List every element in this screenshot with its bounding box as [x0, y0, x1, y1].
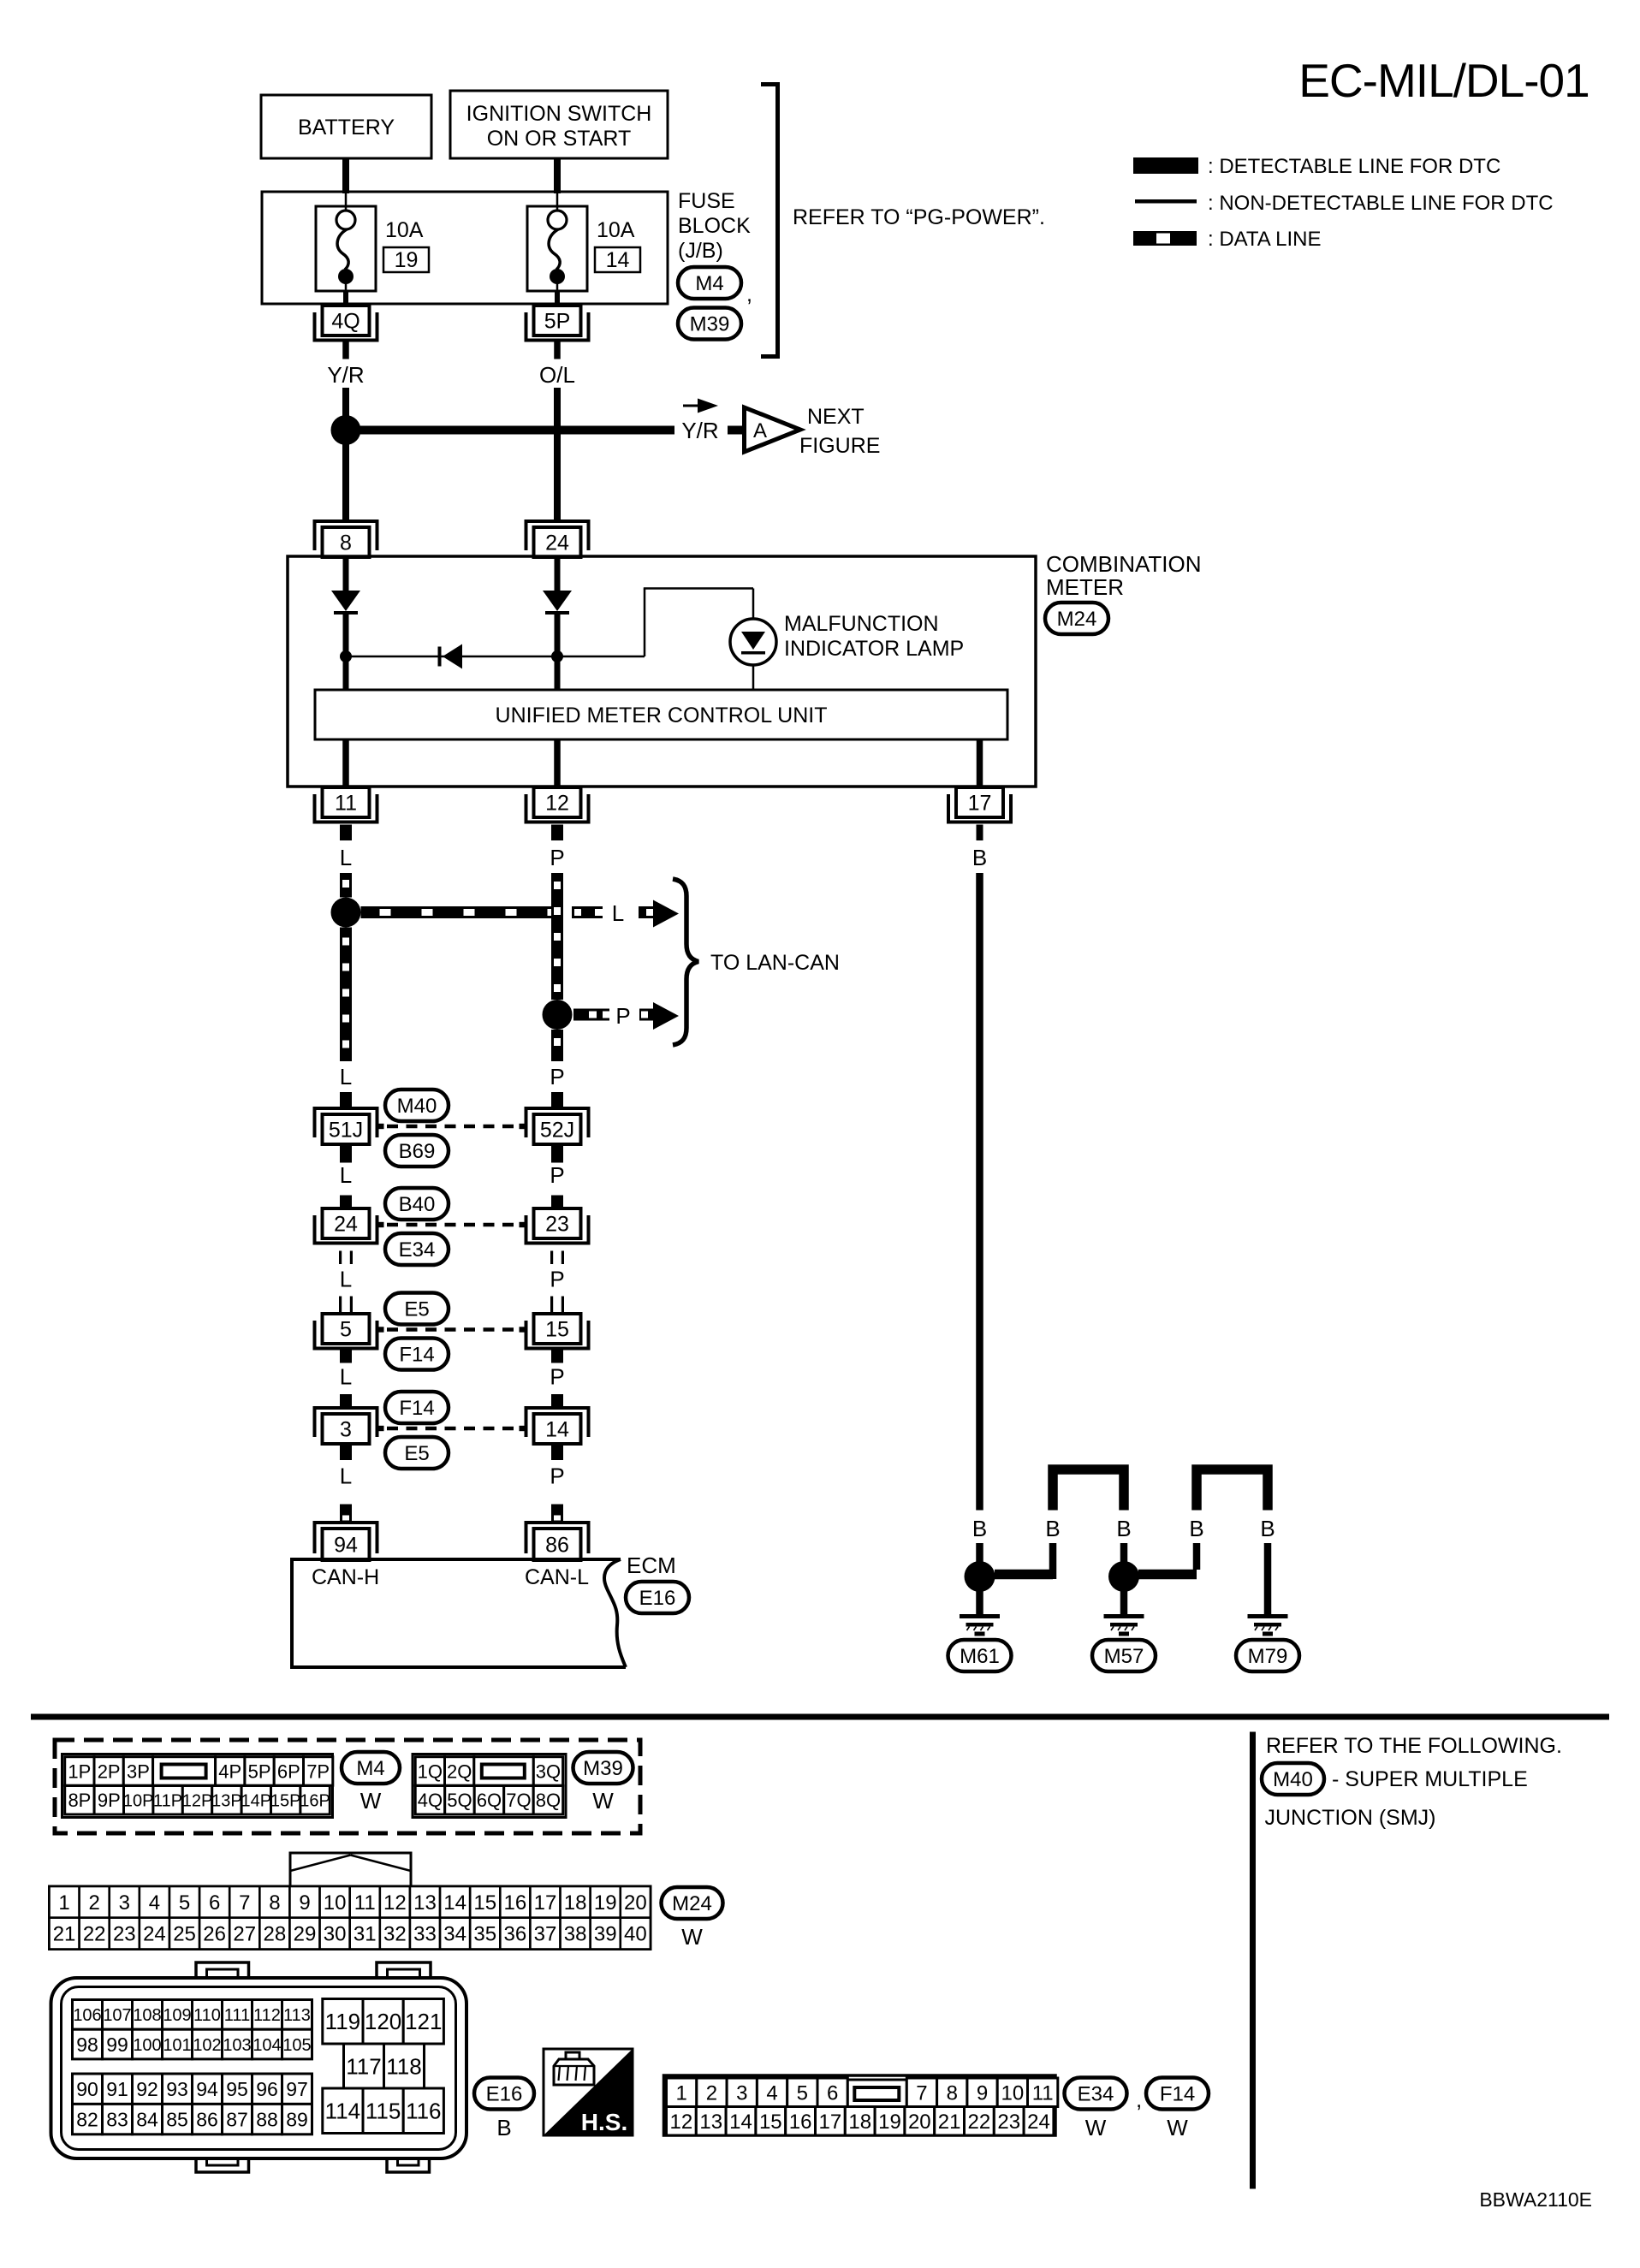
- svg-text:84: 84: [136, 2108, 158, 2130]
- svg-text:6Q: 6Q: [477, 1790, 502, 1811]
- svg-text:B: B: [1189, 1516, 1203, 1541]
- svg-text:Y/R: Y/R: [681, 418, 718, 443]
- svg-text:15: 15: [473, 1891, 496, 1915]
- svg-text:11: 11: [335, 792, 357, 816]
- svg-text:L: L: [340, 1162, 352, 1188]
- svg-text:10A: 10A: [597, 218, 635, 242]
- svg-text:FIGURE: FIGURE: [799, 434, 880, 458]
- svg-text:: NON-DETECTABLE LINE FOR DTC: : NON-DETECTABLE LINE FOR DTC: [1208, 192, 1554, 215]
- svg-text:2: 2: [89, 1891, 100, 1915]
- svg-text:W: W: [1167, 2115, 1188, 2140]
- svg-text:114: 114: [325, 2099, 360, 2124]
- svg-text:P: P: [550, 1162, 564, 1188]
- svg-text:B: B: [972, 1516, 987, 1541]
- svg-text:8Q: 8Q: [536, 1790, 561, 1811]
- svg-text:36: 36: [504, 1923, 527, 1946]
- svg-text:M61: M61: [960, 1645, 1000, 1668]
- svg-text:26: 26: [203, 1923, 226, 1946]
- svg-text:101: 101: [163, 2036, 191, 2055]
- svg-text:3: 3: [736, 2081, 747, 2105]
- svg-text:13P: 13P: [211, 1791, 242, 1810]
- svg-text:14: 14: [606, 248, 630, 272]
- svg-text:85: 85: [166, 2108, 188, 2130]
- svg-text:1: 1: [58, 1891, 69, 1915]
- svg-text:M40: M40: [397, 1095, 437, 1118]
- svg-text:86: 86: [196, 2108, 218, 2130]
- svg-text:93: 93: [166, 2078, 188, 2100]
- svg-text:119: 119: [325, 2009, 360, 2034]
- svg-text:97: 97: [286, 2078, 308, 2100]
- svg-text:BATTERY: BATTERY: [298, 116, 395, 140]
- svg-text:L: L: [612, 900, 624, 926]
- svg-text:B: B: [972, 845, 987, 870]
- svg-text:11: 11: [354, 1891, 376, 1915]
- svg-text:87: 87: [226, 2108, 248, 2130]
- svg-text:P: P: [550, 1064, 564, 1089]
- svg-text:18: 18: [848, 2111, 871, 2134]
- svg-text:20: 20: [908, 2111, 931, 2134]
- svg-text:10P: 10P: [123, 1791, 154, 1810]
- svg-text:17: 17: [534, 1891, 557, 1915]
- svg-text:10: 10: [1001, 2081, 1024, 2105]
- svg-text:L: L: [340, 1464, 352, 1489]
- svg-text:38: 38: [564, 1923, 587, 1946]
- svg-text:F14: F14: [1160, 2083, 1195, 2106]
- svg-text:UNIFIED METER CONTROL UNIT: UNIFIED METER CONTROL UNIT: [496, 704, 828, 727]
- svg-text:111: 111: [224, 2006, 250, 2025]
- svg-text:CAN-H: CAN-H: [312, 1565, 379, 1589]
- svg-text:REFER TO “PG-POWER”.: REFER TO “PG-POWER”.: [793, 205, 1045, 229]
- svg-text:3: 3: [119, 1891, 130, 1915]
- svg-text:W: W: [1085, 2115, 1107, 2140]
- svg-text:5: 5: [340, 1318, 352, 1342]
- svg-text:B: B: [496, 2115, 511, 2140]
- svg-text:9P: 9P: [98, 1790, 121, 1811]
- svg-text:91: 91: [106, 2078, 128, 2100]
- svg-text:21: 21: [938, 2111, 961, 2134]
- svg-text:M57: M57: [1104, 1645, 1144, 1668]
- svg-text:H.S.: H.S.: [581, 2109, 627, 2135]
- svg-text:6P: 6P: [277, 1760, 300, 1782]
- svg-text:115: 115: [365, 2099, 401, 2124]
- svg-text:B: B: [1260, 1516, 1275, 1541]
- svg-text:E5: E5: [404, 1298, 429, 1321]
- svg-text:6: 6: [209, 1891, 220, 1915]
- svg-text:L: L: [340, 1364, 352, 1390]
- svg-text:118: 118: [386, 2053, 421, 2079]
- svg-text:24: 24: [334, 1213, 358, 1237]
- svg-text:B: B: [1116, 1516, 1131, 1541]
- svg-text:M24: M24: [672, 1892, 712, 1915]
- svg-text:117: 117: [346, 2053, 381, 2079]
- svg-text:90: 90: [76, 2078, 98, 2100]
- svg-text:A: A: [753, 419, 767, 442]
- svg-text:32: 32: [383, 1923, 407, 1946]
- svg-text:14: 14: [729, 2111, 752, 2134]
- svg-text:24: 24: [143, 1923, 166, 1946]
- svg-text:M79: M79: [1248, 1645, 1288, 1668]
- svg-text:14P: 14P: [241, 1791, 272, 1810]
- svg-text:6: 6: [827, 2081, 838, 2105]
- svg-text:4: 4: [766, 2081, 777, 2105]
- svg-text:24: 24: [545, 531, 569, 555]
- svg-text:23: 23: [545, 1213, 569, 1237]
- svg-text:JUNCTION (SMJ): JUNCTION (SMJ): [1265, 1806, 1436, 1830]
- svg-text:108: 108: [133, 2006, 161, 2025]
- svg-text:19: 19: [395, 248, 419, 272]
- svg-text:21: 21: [53, 1923, 76, 1946]
- svg-text:16: 16: [789, 2111, 812, 2134]
- svg-text:8P: 8P: [68, 1790, 91, 1811]
- svg-text:99: 99: [106, 2033, 128, 2056]
- svg-text:FUSE: FUSE: [678, 189, 735, 213]
- svg-text:14: 14: [443, 1891, 466, 1915]
- svg-text:13: 13: [699, 2111, 722, 2134]
- svg-text:10A: 10A: [385, 218, 424, 242]
- svg-text:O/L: O/L: [539, 362, 575, 388]
- svg-text:105: 105: [282, 2036, 311, 2055]
- svg-text:Y/R: Y/R: [327, 362, 364, 388]
- svg-text:107: 107: [103, 2006, 131, 2025]
- svg-text:103: 103: [223, 2036, 251, 2055]
- svg-text:12: 12: [383, 1891, 407, 1915]
- svg-text:7: 7: [916, 2081, 927, 2105]
- svg-text:F14: F14: [399, 1397, 434, 1420]
- svg-text:BBWA2110E: BBWA2110E: [1479, 2188, 1592, 2211]
- svg-text:P: P: [550, 1464, 564, 1489]
- svg-text:14: 14: [545, 1418, 569, 1442]
- svg-text:28: 28: [264, 1923, 287, 1946]
- svg-text:23: 23: [113, 1923, 136, 1946]
- svg-text:25: 25: [173, 1923, 196, 1946]
- svg-text:16P: 16P: [300, 1791, 330, 1810]
- svg-text:13: 13: [413, 1891, 437, 1915]
- svg-text:4: 4: [149, 1891, 160, 1915]
- svg-text:27: 27: [233, 1923, 256, 1946]
- svg-text:EC-MIL/DL-01: EC-MIL/DL-01: [1298, 54, 1589, 107]
- svg-text:5P: 5P: [248, 1760, 271, 1782]
- svg-text:98: 98: [76, 2033, 98, 2056]
- svg-text:2Q: 2Q: [447, 1760, 472, 1782]
- svg-text:COMBINATION: COMBINATION: [1046, 551, 1202, 577]
- svg-text:22: 22: [968, 2111, 991, 2134]
- svg-text:15P: 15P: [270, 1791, 301, 1810]
- svg-text:CAN-L: CAN-L: [525, 1565, 589, 1589]
- svg-text:116: 116: [406, 2099, 441, 2124]
- svg-text:12: 12: [670, 2111, 693, 2134]
- svg-text:33: 33: [413, 1923, 437, 1946]
- svg-text:86: 86: [545, 1534, 569, 1558]
- svg-text:106: 106: [73, 2006, 101, 2025]
- svg-text:92: 92: [136, 2078, 158, 2100]
- svg-text:10: 10: [324, 1891, 347, 1915]
- svg-text:31: 31: [354, 1923, 377, 1946]
- svg-text:104: 104: [253, 2036, 281, 2055]
- svg-text:7P: 7P: [306, 1760, 330, 1782]
- svg-text:ON OR START: ON OR START: [487, 127, 632, 151]
- svg-text:11P: 11P: [153, 1791, 182, 1810]
- svg-text:112: 112: [253, 2006, 281, 2025]
- svg-text:19: 19: [878, 2111, 901, 2134]
- svg-text:TO LAN-CAN: TO LAN-CAN: [710, 951, 840, 975]
- svg-text:5P: 5P: [544, 310, 571, 334]
- svg-text:19: 19: [594, 1891, 617, 1915]
- svg-text:5Q: 5Q: [447, 1790, 472, 1811]
- svg-text:102: 102: [193, 2036, 221, 2055]
- svg-text:M4: M4: [356, 1757, 384, 1780]
- svg-text:23: 23: [997, 2111, 1020, 2134]
- svg-text:12: 12: [545, 792, 569, 816]
- svg-text:11: 11: [1032, 2081, 1054, 2105]
- svg-text:NEXT: NEXT: [807, 405, 865, 429]
- svg-text:: DETECTABLE LINE FOR DTC: : DETECTABLE LINE FOR DTC: [1208, 155, 1500, 178]
- svg-text:W: W: [592, 1788, 614, 1814]
- svg-text:- SUPER MULTIPLE: - SUPER MULTIPLE: [1332, 1767, 1528, 1791]
- svg-text:9: 9: [299, 1891, 310, 1915]
- svg-text:(J/B): (J/B): [678, 239, 723, 263]
- svg-text:34: 34: [443, 1923, 466, 1946]
- svg-text:8: 8: [269, 1891, 280, 1915]
- svg-text:110: 110: [193, 2006, 221, 2025]
- svg-text:3: 3: [340, 1418, 352, 1442]
- svg-text:MALFUNCTION: MALFUNCTION: [784, 612, 939, 636]
- svg-text:37: 37: [534, 1923, 557, 1946]
- svg-text:8: 8: [340, 531, 352, 555]
- svg-text:3Q: 3Q: [536, 1760, 561, 1782]
- svg-text:E5: E5: [404, 1442, 429, 1465]
- svg-text:M40: M40: [1273, 1768, 1313, 1791]
- svg-text:29: 29: [294, 1923, 317, 1946]
- svg-text:P: P: [615, 1003, 630, 1029]
- svg-text:INDICATOR LAMP: INDICATOR LAMP: [784, 637, 964, 661]
- svg-text:12P: 12P: [182, 1791, 213, 1810]
- svg-text:E34: E34: [399, 1238, 436, 1262]
- svg-text:P: P: [550, 1364, 564, 1390]
- svg-text:,: ,: [1136, 2087, 1142, 2112]
- svg-text:24: 24: [1027, 2111, 1050, 2134]
- svg-text:E16: E16: [639, 1587, 676, 1610]
- svg-text:4Q: 4Q: [418, 1790, 443, 1811]
- svg-text:9: 9: [977, 2081, 988, 2105]
- svg-text:REFER TO THE FOLLOWING.: REFER TO THE FOLLOWING.: [1266, 1734, 1562, 1758]
- svg-text:F14: F14: [399, 1344, 434, 1367]
- svg-text:M24: M24: [1057, 608, 1097, 631]
- svg-text:88: 88: [256, 2108, 278, 2130]
- svg-text:E34: E34: [1078, 2083, 1114, 2106]
- svg-text:M39: M39: [583, 1757, 623, 1780]
- svg-text:5: 5: [797, 2081, 808, 2105]
- svg-text:W: W: [360, 1788, 382, 1814]
- svg-text:M39: M39: [690, 313, 730, 336]
- svg-text:E16: E16: [486, 2083, 523, 2106]
- svg-text:P: P: [550, 1267, 564, 1292]
- svg-text:17: 17: [968, 792, 992, 816]
- svg-text:B: B: [1045, 1516, 1060, 1541]
- svg-text:METER: METER: [1046, 574, 1124, 600]
- svg-text:1Q: 1Q: [418, 1760, 443, 1782]
- svg-text:18: 18: [564, 1891, 587, 1915]
- svg-text:,: ,: [746, 282, 752, 306]
- svg-text:7Q: 7Q: [506, 1790, 531, 1811]
- svg-text:82: 82: [76, 2108, 98, 2130]
- svg-text:89: 89: [286, 2108, 308, 2130]
- svg-text:40: 40: [624, 1923, 647, 1946]
- svg-text:17: 17: [819, 2111, 842, 2134]
- svg-text:2P: 2P: [98, 1760, 121, 1782]
- svg-text:IGNITION SWITCH: IGNITION SWITCH: [466, 102, 652, 126]
- svg-text:L: L: [340, 845, 352, 870]
- svg-text:52J: 52J: [540, 1119, 574, 1143]
- svg-text:51J: 51J: [329, 1119, 363, 1143]
- svg-text:100: 100: [133, 2036, 161, 2055]
- svg-text:39: 39: [594, 1923, 617, 1946]
- svg-text:2: 2: [706, 2081, 717, 2105]
- svg-text:109: 109: [163, 2006, 191, 2025]
- svg-text:95: 95: [226, 2078, 248, 2100]
- svg-text:15: 15: [545, 1318, 569, 1342]
- svg-text:35: 35: [473, 1923, 496, 1946]
- svg-text:B69: B69: [399, 1140, 436, 1163]
- svg-text:7: 7: [239, 1891, 250, 1915]
- svg-text:W: W: [681, 1924, 703, 1950]
- svg-text:94: 94: [196, 2078, 218, 2100]
- svg-text:1P: 1P: [68, 1760, 91, 1782]
- svg-text:94: 94: [334, 1534, 358, 1558]
- svg-text:3P: 3P: [127, 1760, 150, 1782]
- svg-text:121: 121: [405, 2009, 442, 2034]
- svg-text:120: 120: [365, 2009, 401, 2034]
- svg-text:22: 22: [83, 1923, 106, 1946]
- svg-text:4Q: 4Q: [331, 310, 359, 334]
- svg-text:M4: M4: [695, 272, 723, 295]
- svg-text:P: P: [550, 845, 564, 870]
- svg-text:15: 15: [759, 2111, 782, 2134]
- svg-text:B40: B40: [399, 1193, 436, 1216]
- svg-text:5: 5: [179, 1891, 190, 1915]
- svg-text:96: 96: [256, 2078, 278, 2100]
- svg-text:L: L: [340, 1064, 352, 1089]
- svg-text:4P: 4P: [218, 1760, 241, 1782]
- svg-text:16: 16: [504, 1891, 527, 1915]
- svg-text:20: 20: [624, 1891, 647, 1915]
- svg-text:ECM: ECM: [627, 1553, 676, 1578]
- svg-text:30: 30: [324, 1923, 347, 1946]
- svg-text:113: 113: [283, 2006, 311, 2025]
- svg-text:1: 1: [675, 2081, 686, 2105]
- svg-text:83: 83: [106, 2108, 128, 2130]
- svg-text:8: 8: [947, 2081, 958, 2105]
- svg-text:L: L: [340, 1267, 352, 1292]
- svg-text:BLOCK: BLOCK: [678, 214, 751, 238]
- svg-text:: DATA LINE: : DATA LINE: [1208, 228, 1321, 251]
